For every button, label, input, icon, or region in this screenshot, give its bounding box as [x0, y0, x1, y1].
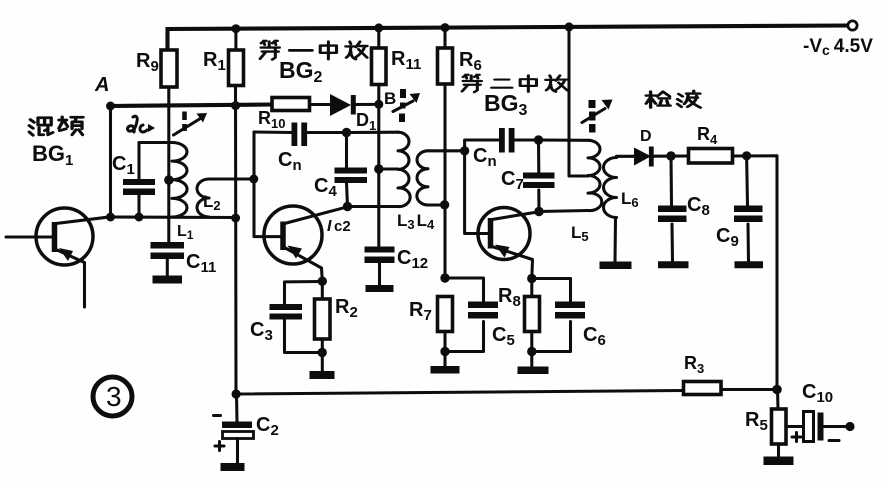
resistor R5 — [772, 390, 787, 458]
wire node A vertical down — [109, 106, 112, 217]
label R4 — [697, 124, 718, 147]
label R6 — [459, 49, 482, 74]
label L2 — [203, 192, 221, 213]
BG3 emitter arrowhead — [495, 245, 510, 258]
wire -Vc rail down to L5 tap — [565, 22, 589, 176]
svg-text:c2: c2 — [334, 218, 351, 235]
wire L3 bottom to BG2 collector — [348, 205, 399, 208]
label 第二中放 chinese — [462, 75, 567, 92]
capacitor C5 — [445, 278, 498, 352]
label R7 — [409, 299, 432, 324]
terminal -Vc open circle — [848, 21, 857, 30]
ground C8 — [658, 261, 689, 268]
inductor L3 — [379, 132, 410, 206]
inductor L1 — [164, 143, 187, 218]
wire BG1 collector — [56, 217, 111, 224]
wire Cn node to L5 top — [539, 138, 589, 141]
svg-text:3: 3 — [106, 381, 122, 412]
node BG2 emitter dot — [318, 277, 327, 286]
label Cn (stage 2) — [473, 145, 497, 170]
label A — [94, 74, 109, 96]
wire emitter node to C3 — [285, 282, 323, 305]
inductor L6 — [604, 156, 634, 261]
resistor R8 — [525, 279, 540, 367]
label R2 — [335, 296, 358, 321]
wire tank bottom horizontal — [111, 215, 236, 219]
node L4 bottom dot — [440, 200, 449, 209]
resistor R9 — [161, 50, 177, 242]
ground R5 — [764, 457, 794, 466]
label C2 — [256, 414, 279, 439]
label R1 — [203, 49, 226, 74]
node BG3 emitter dot — [527, 274, 536, 283]
label C7 — [501, 168, 524, 193]
transistor BG3 base bar — [488, 218, 494, 249]
slug tuning arrow L5 — [582, 100, 613, 133]
resistor R6 — [438, 23, 453, 278]
svg-text:B: B — [384, 89, 396, 108]
label R9 — [136, 50, 159, 75]
inductor L5 — [588, 140, 602, 210]
capacitor C11 — [151, 242, 185, 284]
wire node A horizontal to R10 — [111, 105, 273, 107]
resistor R1 — [229, 50, 244, 86]
wire BG1 base lead — [6, 235, 52, 238]
wire BG2 base vertical — [249, 132, 281, 237]
node diode output dot — [666, 151, 675, 160]
capacitor C4 — [335, 128, 368, 211]
svg-text:I: I — [327, 218, 332, 235]
node tank bottom left dot — [106, 213, 115, 222]
diode D — [634, 147, 689, 167]
wire BG2 emitter — [285, 248, 323, 282]
ground C9 — [735, 261, 764, 268]
label R5 — [745, 409, 768, 434]
junction dots R1 line — [231, 24, 241, 398]
transistor BG3 circle — [478, 208, 530, 260]
label C5 — [492, 324, 515, 349]
label C3 — [250, 319, 273, 344]
resistor R3 — [684, 382, 722, 395]
resistor R7 — [438, 273, 453, 366]
capacitor Cn neutralizing (stage 2) — [465, 128, 539, 153]
C10 polarity marks — [792, 433, 839, 442]
capacitor C10 electrolytic — [786, 412, 855, 442]
wire BG3 emitter — [492, 247, 533, 279]
label Ic2 — [327, 218, 351, 235]
capacitor C2 electrolytic — [221, 394, 254, 471]
ground R8 — [518, 367, 549, 375]
label L6 — [621, 189, 639, 210]
resistor R4 — [689, 149, 733, 164]
label D1 — [356, 110, 376, 133]
transistor BG1 circle — [36, 208, 93, 265]
wire C7 bottom to L5 bottom — [539, 211, 588, 212]
label 第一中放 chinese — [260, 41, 367, 60]
label -Vc 4.5V — [803, 36, 873, 58]
svg-text:-Vc4.5V: -Vc4.5V — [803, 36, 873, 58]
wire L3 top bridge — [347, 131, 399, 134]
wire top rail -Vc — [168, 26, 849, 51]
label BG1 — [32, 141, 73, 169]
wire BG2 collector — [285, 207, 348, 224]
label L3 L4 — [397, 211, 435, 232]
label C8 — [687, 194, 710, 219]
wire R10 to D1 — [310, 103, 334, 106]
diode D1 — [330, 94, 379, 116]
resistor R11 — [372, 23, 387, 108]
node A dot — [106, 102, 115, 111]
label C10 — [802, 381, 833, 406]
figure number circle 3 — [93, 377, 132, 416]
wire R1 vertical down to AGC bus — [234, 29, 238, 394]
wire R4 to output vertical — [733, 156, 778, 390]
capacitor C7 — [523, 135, 555, 216]
label C4 — [314, 175, 337, 200]
capacitor Cn neutralizing (stage 1) — [254, 123, 346, 147]
wire BG3 base vertical — [465, 151, 488, 234]
resistor R2 — [315, 281, 331, 371]
transistor BG1 base bar — [52, 222, 58, 252]
label R3 — [684, 353, 704, 376]
ground L6 — [600, 262, 632, 270]
wire C1 to L1 top — [139, 141, 172, 144]
label C11 — [186, 251, 216, 276]
wire R11 down to L3 tap and C12 — [374, 104, 383, 246]
wire BG3 collector — [492, 212, 539, 220]
capacitor C6 — [532, 279, 585, 352]
label L5 — [571, 223, 589, 244]
label C6 — [583, 324, 606, 349]
capacitor C1 trimmer scribble — [127, 116, 155, 132]
svg-text:D: D — [640, 128, 652, 145]
label C12 — [397, 247, 428, 272]
label R10 — [258, 108, 285, 131]
wire AGC bus bottom — [236, 390, 777, 395]
node R4 right dot — [742, 151, 751, 160]
node L4 top / BG3 base dot — [460, 146, 469, 155]
label R8 — [498, 285, 521, 310]
ground BG2 emitter — [310, 371, 335, 379]
label R11 — [391, 48, 421, 73]
capacitor C9 — [734, 156, 763, 262]
test point B symbol — [384, 89, 420, 122]
label C9 — [716, 225, 739, 250]
capacitor C12 — [365, 247, 395, 293]
transistor BG2 base bar — [280, 222, 286, 251]
node AGC output dot — [772, 385, 782, 395]
label BG2 — [279, 57, 323, 86]
resistor R10 — [272, 98, 310, 111]
wire BG1 emitter — [56, 250, 85, 308]
capacitor C8 — [658, 156, 687, 262]
transistor BG2 circle — [264, 206, 322, 264]
label mixer chinese 混频 — [29, 117, 83, 135]
label L1 — [177, 223, 194, 242]
wire L2 top to BG2 base line — [209, 177, 254, 180]
slug tuning arrow L1 — [174, 112, 208, 136]
ground R7 — [431, 366, 460, 374]
inductor L2 — [197, 179, 209, 217]
C2 polarity marks — [214, 416, 225, 451]
capacitor C3 — [270, 304, 323, 353]
svg-text:A: A — [94, 74, 109, 96]
label D — [640, 128, 652, 145]
BG1 emitter arrowhead — [59, 248, 73, 261]
label C1 — [112, 153, 135, 178]
BG2 emitter arrowhead — [288, 246, 303, 259]
wire L6 top to diode D — [632, 155, 635, 158]
inductor L4 — [417, 151, 465, 205]
label 检波 chinese — [646, 91, 700, 108]
label Cn (stage 1) — [278, 149, 302, 174]
label BG3 — [484, 90, 528, 119]
capacitor C1 — [123, 143, 155, 222]
